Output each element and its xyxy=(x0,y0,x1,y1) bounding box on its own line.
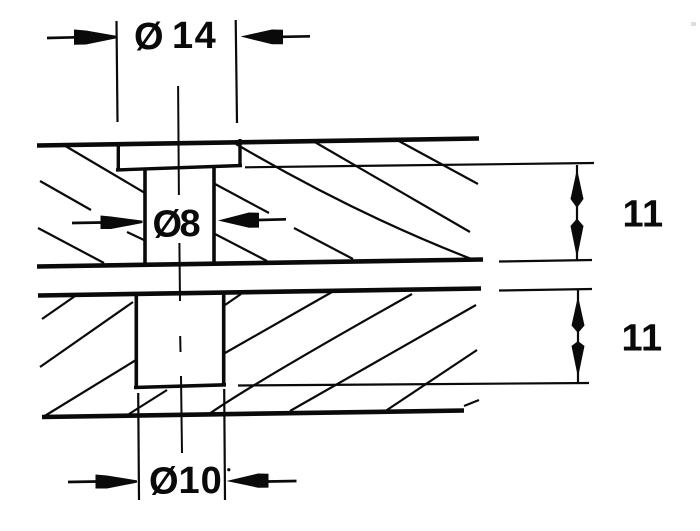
outline: through hole Ø8 xyxy=(145,166,214,268)
svg-text:8: 8 xyxy=(180,203,201,245)
dimension Ø14: arrow tails xyxy=(47,36,310,38)
dimension Ø10: arrowheads xyxy=(96,474,269,489)
svg-text:11: 11 xyxy=(623,194,664,236)
value label: Ø8 xyxy=(153,203,201,246)
dimension Ø10: arrow tails xyxy=(68,481,297,482)
dimension Ø8: arrowheads xyxy=(101,213,260,230)
svg-text:14: 14 xyxy=(172,15,217,57)
outline: counterbore Ø14 xyxy=(116,139,242,171)
hatching: lower plate section xyxy=(40,292,479,417)
dimension Ø8: arrow tails xyxy=(72,219,286,223)
svg-text:Ø: Ø xyxy=(134,16,164,58)
dimension 11 upper: top extension line (counterbore depth line) xyxy=(245,163,594,167)
scan artifact: dot near Ø10 xyxy=(227,468,230,471)
scan artifact: faint smudge top right xyxy=(691,22,696,26)
dimension 11 upper: bottom extension line xyxy=(499,260,592,262)
outline: upper plate top surface xyxy=(37,139,479,146)
outline: lower plate top surface xyxy=(38,289,481,296)
dimension Ø14: arrowheads xyxy=(74,30,283,45)
svg-text:11: 11 xyxy=(622,318,663,360)
centerline: hole axis (dash-dot) xyxy=(178,86,182,453)
outline: lower plate bottom surface xyxy=(42,411,464,418)
svg-text:Ø: Ø xyxy=(149,461,179,503)
dimension 11 lower: top extension line xyxy=(499,289,592,291)
hatching: upper plate section xyxy=(38,140,478,263)
value label: Ø 14 xyxy=(134,15,217,58)
dimension Ø14: extension lines xyxy=(117,20,238,123)
svg-text:Ø: Ø xyxy=(153,204,183,246)
outline: blind hole Ø10 xyxy=(134,291,226,388)
value label: Ø 10 xyxy=(149,460,223,503)
svg-text:10: 10 xyxy=(179,460,223,502)
dimension 11 lower: bottom extension line (hole bottom) xyxy=(238,383,589,386)
dimension Ø10: extension lines xyxy=(138,389,225,500)
dimension 11 lower: dimension line and arrowheads xyxy=(577,290,579,384)
outline: upper plate bottom surface xyxy=(37,260,483,267)
dimension 11 upper: dimension line and arrowheads xyxy=(576,165,578,261)
